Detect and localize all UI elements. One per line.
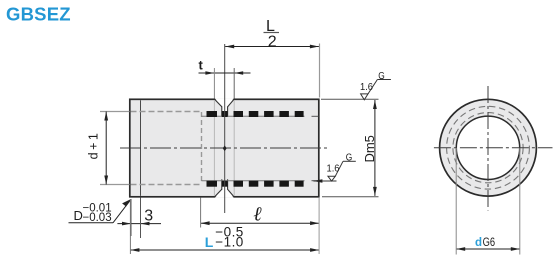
bore line top (202, 115, 305, 117)
dim L extensions (129, 199, 131, 254)
end view bore circle (456, 116, 519, 179)
dim L/2 text (266, 18, 277, 50)
svg-text:d: d (475, 237, 482, 249)
part centerline horizontal (120, 147, 330, 149)
knurl dash row bottom (207, 181, 304, 187)
svg-text:1.6: 1.6 (327, 164, 340, 175)
dim 3 extensions (130, 199, 132, 236)
dim Dm5 (373, 100, 377, 196)
leader D tolerance (69, 200, 131, 223)
end view dashed circle inner (453, 113, 523, 183)
end view centerline horizontal (434, 147, 553, 149)
top groove notch (215, 98, 234, 116)
groove tangent line right (233, 100, 235, 196)
svg-text:3: 3 (144, 208, 153, 225)
svg-text:Dm5: Dm5 (362, 135, 377, 162)
dim dG6 (456, 247, 520, 251)
dim L/2 right extension (319, 44, 321, 98)
groove tangent line left (213, 100, 215, 196)
dim Dm5 extensions (321, 98, 379, 100)
svg-text:G6: G6 (483, 235, 496, 249)
end view centerline vertical (487, 86, 489, 211)
dim d+1 (104, 112, 108, 185)
svg-text:t: t (199, 58, 204, 73)
bore step hidden line (201, 112, 203, 184)
left end chamfer line (140, 100, 142, 196)
side view body (130, 99, 319, 197)
surface finish symbol bore (313, 161, 355, 181)
svg-text:−0.03: −0.03 (83, 212, 112, 224)
bottom groove notch (215, 180, 234, 198)
end view dashed circle outer (447, 106, 530, 189)
bore line bottom (202, 180, 305, 182)
svg-text:G: G (378, 71, 385, 82)
dim 3 (117, 222, 161, 226)
counterbore hidden line top (100, 111, 202, 113)
center diamond mark (223, 146, 227, 152)
svg-text:GBSEZ: GBSEZ (6, 3, 71, 24)
groove center line vertical (224, 44, 226, 213)
svg-text:1.6: 1.6 (360, 82, 373, 93)
surface finish symbol top (361, 80, 391, 100)
knurl dash row top (207, 111, 304, 117)
dim L/2 (225, 45, 319, 49)
dim ell extension (200, 198, 202, 228)
svg-text:L: L (205, 234, 214, 250)
end view outer circle (440, 99, 537, 196)
svg-text:d+1: d+1 (87, 131, 101, 160)
counterbore hidden line bottom (100, 184, 202, 186)
dim t extensions (213, 68, 215, 99)
dim ell (201, 221, 320, 225)
svg-text:G: G (346, 152, 353, 163)
svg-text:D: D (74, 208, 83, 223)
svg-text:ℓ: ℓ (253, 204, 262, 226)
dim dG6 extensions (455, 148, 457, 255)
dim L (130, 248, 319, 252)
svg-text:−1.0: −1.0 (215, 234, 243, 249)
dim t (199, 71, 251, 75)
svg-text:2: 2 (268, 33, 277, 50)
